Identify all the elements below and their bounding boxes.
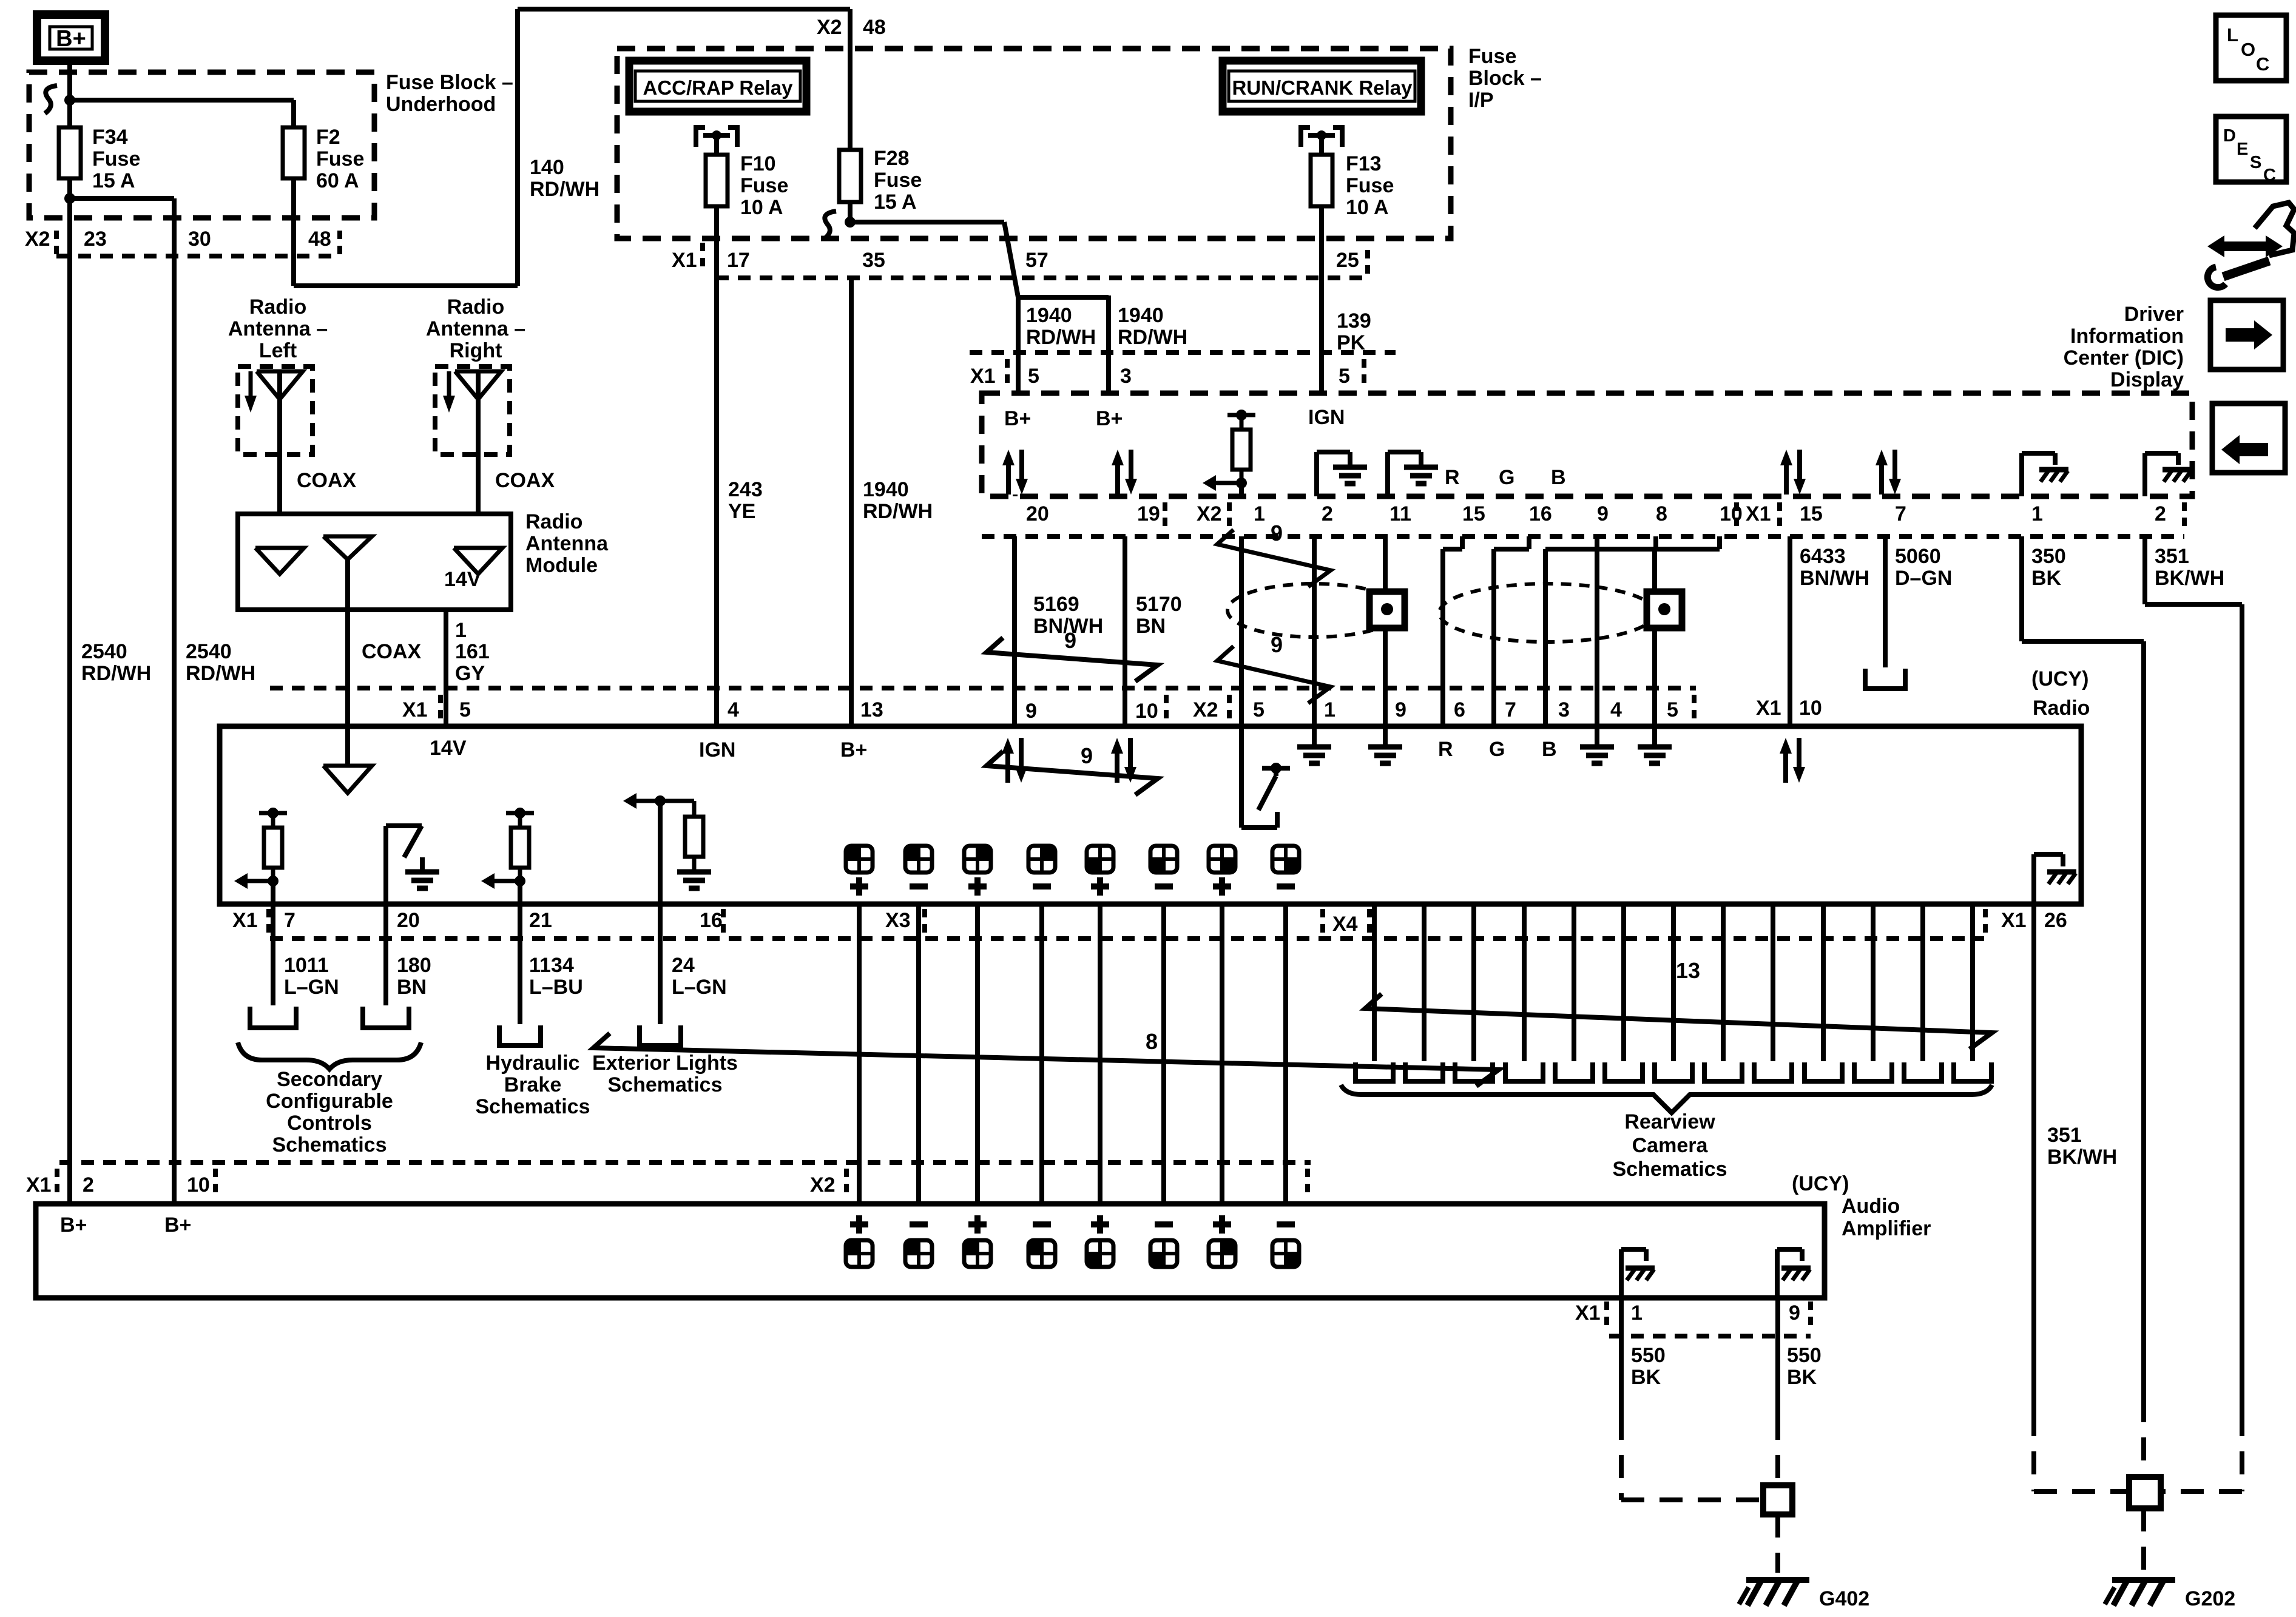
svg-text:F10: F10 — [740, 152, 776, 175]
svg-text:1134: 1134 — [529, 954, 574, 977]
svg-text:48: 48 — [308, 228, 331, 251]
svg-text:5: 5 — [1667, 698, 1678, 721]
svg-text:15 A: 15 A — [92, 169, 135, 192]
svg-text:C: C — [2263, 166, 2276, 185]
svg-text:8: 8 — [1656, 502, 1667, 525]
svg-text:I/P: I/P — [1468, 89, 1494, 112]
svg-text:Block –: Block – — [1468, 67, 1542, 90]
svg-text:RD/WH: RD/WH — [863, 500, 933, 523]
svg-text:9: 9 — [1064, 628, 1076, 653]
svg-text:Fuse Block –: Fuse Block – — [386, 71, 513, 94]
svg-text:L: L — [2227, 24, 2238, 46]
svg-text:1: 1 — [455, 619, 467, 642]
svg-text:Fuse: Fuse — [1468, 45, 1516, 68]
svg-text:BN: BN — [397, 976, 427, 999]
svg-text:COAX: COAX — [495, 469, 555, 492]
svg-text:RUN/CRANK Relay: RUN/CRANK Relay — [1232, 76, 1413, 99]
svg-text:Camera: Camera — [1632, 1134, 1709, 1157]
svg-text:(UCY): (UCY) — [2031, 667, 2088, 690]
svg-text:X2: X2 — [817, 16, 842, 39]
svg-text:4: 4 — [728, 698, 739, 721]
svg-text:Rearview: Rearview — [1624, 1110, 1715, 1133]
svg-text:10: 10 — [1135, 700, 1158, 723]
svg-text:2: 2 — [2155, 502, 2166, 525]
svg-text:D–GN: D–GN — [1895, 567, 1952, 590]
svg-text:L–GN: L–GN — [672, 976, 727, 999]
svg-text:Antenna: Antenna — [525, 532, 609, 555]
svg-text:G: G — [1499, 466, 1514, 489]
svg-text:5060: 5060 — [1895, 545, 1941, 568]
svg-text:Fuse: Fuse — [92, 147, 140, 170]
svg-text:9: 9 — [1271, 632, 1283, 657]
svg-text:G: G — [1489, 738, 1505, 761]
svg-text:Antenna –: Antenna – — [228, 317, 328, 340]
svg-text:Radio: Radio — [447, 295, 504, 319]
svg-text:BN: BN — [1136, 615, 1166, 638]
svg-text:15: 15 — [1462, 502, 1485, 525]
svg-text:X4: X4 — [1332, 913, 1358, 936]
svg-text:10 A: 10 A — [1346, 196, 1389, 219]
svg-text:1940: 1940 — [863, 478, 909, 501]
svg-text:57: 57 — [1025, 249, 1048, 272]
svg-text:2540: 2540 — [81, 640, 127, 663]
svg-text:2: 2 — [83, 1173, 94, 1197]
svg-text:D: D — [2223, 126, 2236, 146]
svg-text:6: 6 — [1454, 698, 1465, 721]
svg-text:Secondary: Secondary — [277, 1068, 382, 1091]
svg-text:26: 26 — [2044, 909, 2067, 932]
svg-text:550: 550 — [1631, 1344, 1666, 1367]
svg-text:7: 7 — [284, 909, 295, 932]
svg-text:X1: X1 — [402, 698, 428, 721]
svg-text:8: 8 — [1146, 1029, 1158, 1054]
svg-text:C: C — [2256, 53, 2269, 75]
svg-text:ACC/RAP Relay: ACC/RAP Relay — [643, 76, 794, 99]
svg-text:B+: B+ — [1096, 407, 1123, 430]
svg-text:2540: 2540 — [186, 640, 232, 663]
svg-text:X2: X2 — [810, 1173, 836, 1197]
svg-text:Center (DIC): Center (DIC) — [2064, 346, 2184, 370]
svg-text:G402: G402 — [1819, 1587, 1869, 1610]
svg-text:E: E — [2237, 140, 2248, 159]
svg-text:20: 20 — [1026, 502, 1049, 525]
svg-text:3: 3 — [1120, 365, 1132, 388]
svg-text:161: 161 — [455, 640, 490, 663]
svg-text:21: 21 — [529, 909, 552, 932]
svg-text:1011: 1011 — [284, 954, 329, 977]
svg-text:RD/WH: RD/WH — [186, 662, 255, 685]
svg-text:COAX: COAX — [362, 640, 422, 663]
svg-text:X1: X1 — [1746, 502, 1771, 525]
svg-text:Schematics: Schematics — [608, 1073, 723, 1096]
svg-text:X1: X1 — [232, 909, 258, 932]
svg-text:RD/WH: RD/WH — [1026, 326, 1096, 349]
svg-text:10: 10 — [1799, 697, 1822, 720]
svg-text:13: 13 — [1676, 958, 1700, 983]
svg-text:5169: 5169 — [1033, 593, 1079, 616]
svg-text:1: 1 — [1631, 1301, 1643, 1325]
svg-text:13: 13 — [860, 698, 883, 721]
svg-text:180: 180 — [397, 954, 431, 977]
svg-text:BK: BK — [1787, 1366, 1817, 1389]
svg-text:Information: Information — [2070, 325, 2184, 348]
svg-text:Schematics: Schematics — [476, 1095, 590, 1118]
svg-text:139: 139 — [1337, 309, 1371, 333]
svg-text:5170: 5170 — [1136, 593, 1182, 616]
svg-text:15 A: 15 A — [874, 191, 917, 214]
svg-text:9: 9 — [1395, 698, 1406, 721]
svg-text:Fuse: Fuse — [874, 169, 922, 192]
svg-text:B+: B+ — [164, 1214, 191, 1237]
svg-text:Module: Module — [525, 554, 598, 577]
svg-text:9: 9 — [1789, 1301, 1800, 1325]
svg-text:6433: 6433 — [1800, 545, 1846, 568]
svg-text:IGN: IGN — [699, 738, 735, 761]
svg-text:X3: X3 — [885, 909, 911, 932]
svg-text:9: 9 — [1271, 521, 1283, 545]
svg-text:9: 9 — [1025, 700, 1037, 723]
svg-text:B+: B+ — [1004, 407, 1031, 430]
svg-text:COAX: COAX — [297, 469, 357, 492]
svg-text:1940: 1940 — [1026, 304, 1072, 327]
svg-text:Schematics: Schematics — [272, 1133, 387, 1156]
svg-text:B+: B+ — [60, 1214, 87, 1237]
svg-text:7: 7 — [1895, 502, 1906, 525]
svg-text:5: 5 — [459, 698, 471, 721]
svg-text:BK/WH: BK/WH — [2155, 567, 2224, 590]
svg-text:1940: 1940 — [1118, 304, 1164, 327]
svg-text:9: 9 — [1081, 743, 1093, 768]
svg-text:X2: X2 — [1193, 698, 1218, 721]
svg-text:Radio: Radio — [525, 510, 582, 533]
svg-text:1: 1 — [1324, 698, 1335, 721]
svg-text:O: O — [2241, 39, 2255, 60]
svg-text:B+: B+ — [56, 26, 86, 52]
svg-text:1: 1 — [1254, 502, 1265, 525]
svg-text:Radio: Radio — [2033, 697, 2090, 720]
svg-text:B: B — [1551, 466, 1566, 489]
svg-text:16: 16 — [700, 909, 723, 932]
svg-text:Exterior Lights: Exterior Lights — [592, 1052, 738, 1075]
svg-text:Underhood: Underhood — [386, 93, 496, 116]
svg-text:10: 10 — [1720, 502, 1743, 525]
svg-text:X1: X1 — [672, 249, 697, 272]
svg-text:L–GN: L–GN — [284, 976, 339, 999]
svg-text:Brake: Brake — [504, 1073, 562, 1096]
svg-text:X2: X2 — [1197, 502, 1222, 525]
svg-text:R: R — [1438, 738, 1453, 761]
svg-text:L–BU: L–BU — [529, 976, 583, 999]
svg-text:BK: BK — [2031, 567, 2062, 590]
svg-text:F34: F34 — [92, 126, 128, 149]
svg-text:Audio: Audio — [1842, 1195, 1900, 1218]
svg-text:Display: Display — [2110, 368, 2184, 391]
svg-text:(UCY): (UCY) — [1792, 1172, 1849, 1195]
svg-text:Amplifier: Amplifier — [1842, 1217, 1931, 1240]
svg-text:9: 9 — [1597, 502, 1609, 525]
svg-text:B: B — [1542, 738, 1557, 761]
svg-text:351: 351 — [2047, 1124, 2082, 1147]
svg-text:10 A: 10 A — [740, 196, 783, 219]
svg-text:X1: X1 — [1756, 697, 1781, 720]
svg-text:R: R — [1445, 466, 1460, 489]
svg-text:F13: F13 — [1346, 152, 1382, 175]
svg-text:14V: 14V — [444, 568, 481, 591]
svg-text:X2: X2 — [25, 228, 50, 251]
svg-text:2: 2 — [1322, 502, 1333, 525]
svg-text:550: 550 — [1787, 1344, 1822, 1367]
svg-text:BN/WH: BN/WH — [1800, 567, 1869, 590]
svg-text:Left: Left — [259, 339, 297, 362]
svg-text:Fuse: Fuse — [1346, 174, 1394, 197]
svg-text:140: 140 — [530, 156, 564, 179]
svg-text:5: 5 — [1253, 698, 1264, 721]
svg-text:3: 3 — [1558, 698, 1570, 721]
svg-text:Fuse: Fuse — [316, 147, 364, 170]
svg-text:X1: X1 — [26, 1173, 52, 1197]
svg-text:GY: GY — [455, 662, 485, 685]
svg-text:X1: X1 — [970, 365, 996, 388]
svg-text:351: 351 — [2155, 545, 2189, 568]
svg-text:Radio: Radio — [249, 295, 306, 319]
svg-text:15: 15 — [1800, 502, 1823, 525]
svg-text:17: 17 — [727, 249, 750, 272]
svg-text:B+: B+ — [840, 738, 867, 761]
svg-text:G202: G202 — [2185, 1587, 2235, 1610]
svg-text:5: 5 — [1028, 365, 1039, 388]
svg-text:4: 4 — [1610, 698, 1622, 721]
svg-text:RD/WH: RD/WH — [1118, 326, 1187, 349]
svg-text:25: 25 — [1336, 249, 1359, 272]
svg-text:Schematics: Schematics — [1613, 1158, 1727, 1181]
svg-text:Driver: Driver — [2124, 303, 2184, 326]
svg-text:Fuse: Fuse — [740, 174, 788, 197]
svg-text:BK: BK — [1631, 1366, 1661, 1389]
svg-text:30: 30 — [188, 228, 211, 251]
svg-text:23: 23 — [84, 228, 107, 251]
svg-text:BK/WH: BK/WH — [2047, 1146, 2117, 1169]
svg-text:16: 16 — [1529, 502, 1552, 525]
svg-text:X1: X1 — [2001, 909, 2027, 932]
svg-text:X1: X1 — [1575, 1301, 1601, 1325]
svg-text:24: 24 — [672, 954, 695, 977]
svg-text:11: 11 — [1389, 502, 1411, 525]
svg-text:7: 7 — [1505, 698, 1516, 721]
svg-text:RD/WH: RD/WH — [530, 178, 599, 201]
svg-text:1: 1 — [2031, 502, 2043, 525]
svg-text:20: 20 — [397, 909, 420, 932]
svg-text:350: 350 — [2031, 545, 2066, 568]
svg-text:Configurable: Configurable — [266, 1090, 393, 1113]
svg-text:RD/WH: RD/WH — [81, 662, 151, 685]
svg-text:YE: YE — [728, 500, 755, 523]
svg-text:14V: 14V — [430, 737, 467, 760]
svg-text:Right: Right — [450, 339, 502, 362]
svg-text:IGN: IGN — [1308, 406, 1345, 429]
svg-text:F2: F2 — [316, 126, 340, 149]
svg-text:Hydraulic: Hydraulic — [486, 1052, 580, 1075]
svg-text:5: 5 — [1339, 365, 1350, 388]
svg-text:48: 48 — [863, 16, 886, 39]
svg-text:35: 35 — [862, 249, 885, 272]
svg-text:Antenna –: Antenna – — [426, 317, 525, 340]
svg-text:S: S — [2250, 153, 2261, 172]
svg-text:Controls: Controls — [287, 1112, 372, 1135]
svg-text:F28: F28 — [874, 147, 910, 170]
svg-text:243: 243 — [728, 478, 763, 501]
svg-text:10: 10 — [187, 1173, 210, 1197]
svg-text:19: 19 — [1137, 502, 1160, 525]
svg-text:60 A: 60 A — [316, 169, 359, 192]
